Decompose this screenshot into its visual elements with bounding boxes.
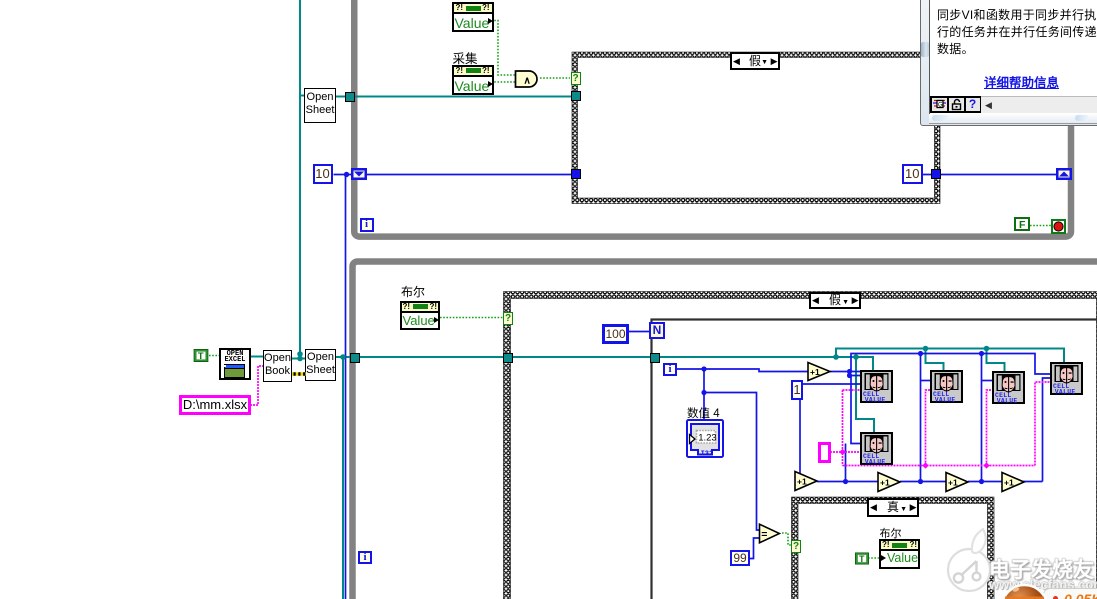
pink bottom bus xyxy=(843,465,1036,467)
case2 teal tunnel xyxy=(503,353,513,363)
blue wire 99 to equals xyxy=(750,538,762,559)
label 布尔 (while2) xyxy=(401,283,425,300)
property node Value 1 (top) xyxy=(452,2,494,32)
for loop border xyxy=(652,320,1097,599)
help toolbar buttons xyxy=(930,96,982,113)
green dotted equals to true case tunnel xyxy=(782,533,792,545)
context help window xyxy=(920,0,1097,124)
CELL VALUE express VI icons xyxy=(0,0,1,1)
property node Value 2 (采集) xyxy=(452,65,494,95)
pink vertical trunk xyxy=(842,390,844,466)
CELL VALUE 2 xyxy=(930,370,963,403)
teal main wire inside for loop xyxy=(656,356,874,358)
boolean constant T (main) xyxy=(193,349,209,362)
window left frame grip xyxy=(921,42,930,57)
teal branch to CELL2 xyxy=(926,349,944,372)
increment +1 bottom 1 xyxy=(793,470,819,492)
loop condition stop terminal xyxy=(1051,219,1066,234)
yellow striped wire Open Book to Open Sheet xyxy=(292,372,306,376)
svg-text:+1: +1 xyxy=(880,478,890,488)
watermark text 电子发烧友 xyxy=(989,554,1097,584)
blue wire 100 to N xyxy=(627,331,650,333)
svg-text:G: G xyxy=(938,103,943,109)
pink to CELL3 xyxy=(987,390,994,466)
speed text xyxy=(1064,591,1097,599)
green dotted wire Value1 to AND xyxy=(491,21,515,76)
case1 blue tunnel right xyxy=(931,169,941,179)
while loop 1 border xyxy=(354,0,1071,237)
blue vertical CELL3 xyxy=(981,354,983,482)
teal vertical wire from top to Open Sheet nodes xyxy=(299,0,301,359)
shift register left (down arrow) xyxy=(351,168,367,180)
green dotted F to stop xyxy=(1030,225,1051,227)
pink to CELL4 xyxy=(1035,382,1050,466)
true case selector label xyxy=(867,498,919,517)
window bottom frame xyxy=(929,114,1097,124)
green dotted 布尔 Value to case2 tunnel xyxy=(440,317,503,319)
teal branch to CELL row2 xyxy=(856,357,874,432)
path constant D:\mm.xlsx xyxy=(179,395,251,415)
numeric constant 10 (in case) xyxy=(902,164,923,184)
blue vertical CELL4 from bus xyxy=(1043,378,1051,482)
svg-text:+1: +1 xyxy=(1004,478,1014,488)
svg-text:+1: +1 xyxy=(797,477,807,487)
wire stub into top Open Sheet xyxy=(299,95,305,97)
while loop 2 border xyxy=(353,262,1097,599)
CELL VALUE 3 xyxy=(992,371,1025,404)
svg-text:∧: ∧ xyxy=(524,75,531,86)
teal drop into CELL VALUE 1 xyxy=(872,357,874,371)
case2 selector label xyxy=(809,292,861,309)
loop2 teal tunnel xyxy=(350,353,360,363)
blue vertical down to CELL row2 xyxy=(851,376,861,444)
svg-text:+1: +1 xyxy=(810,367,820,377)
blue +1 output to CELL1 inputs xyxy=(830,371,861,373)
case1 blue tunnel left xyxy=(571,169,581,179)
property node Value (true case, write) xyxy=(879,539,920,569)
true case selector tunnel ? xyxy=(791,540,801,553)
teal branch to CELL3 xyxy=(987,349,1005,372)
green dotted AND to case tunnel xyxy=(540,77,570,79)
svg-text:=: = xyxy=(761,528,767,540)
blue wire 10b to tunnel to shift register right xyxy=(923,174,1058,176)
blue top bus from +1 xyxy=(851,354,1050,375)
label 数值 4 xyxy=(687,405,720,421)
node: teal junction dots xyxy=(297,351,303,357)
Open Book node xyxy=(263,350,292,382)
case1 selector tunnel ? xyxy=(571,72,581,85)
CELL VALUE 1 xyxy=(860,370,893,403)
pink junction diamond xyxy=(839,449,845,455)
pink wire path const to Open Book xyxy=(250,366,264,405)
orange sphere xyxy=(1000,582,1050,599)
numeric constant 1 xyxy=(791,380,803,400)
numeric constant 100 xyxy=(602,324,629,344)
pink wire empty string to junction xyxy=(830,451,861,453)
watermark logo circle xyxy=(0,0,1097,1)
AND gate xyxy=(514,70,540,88)
for loop iteration terminal i xyxy=(663,363,677,376)
numeric indicator terminal icon xyxy=(686,419,724,458)
pink to CELL1 xyxy=(843,389,862,391)
increment +1 bottom 4 xyxy=(1000,471,1026,493)
case1 teal tunnel xyxy=(571,91,581,101)
CELL VALUE 4 xyxy=(1050,362,1083,395)
equals comparator xyxy=(758,523,781,544)
svg-text:1.23: 1.23 xyxy=(698,433,717,444)
teal wire OPEN EXCEL to Open Book xyxy=(250,356,264,358)
pink to CELL2 xyxy=(926,390,931,466)
blue wire 10 to shift register xyxy=(334,174,353,176)
loop1 teal tunnel xyxy=(345,92,355,102)
blue junction dot xyxy=(344,172,349,177)
OPEN EXCEL VI icon xyxy=(219,348,251,380)
property node Value (布尔) xyxy=(400,301,441,330)
blue wire i to +1 xyxy=(676,369,809,372)
teal wire Open Sheet 2 to for loop xyxy=(336,356,656,358)
teal junction dot B xyxy=(853,354,859,360)
label 布尔 (true case) xyxy=(880,525,902,541)
blue wire 1 const down to +1 row xyxy=(799,400,801,478)
increment +1 bottom 2 xyxy=(876,471,902,493)
blue wire to numeric indicator xyxy=(703,393,705,421)
case structure true border (inner) xyxy=(792,497,995,599)
green dotted T to OPEN EXCEL xyxy=(209,355,220,357)
boolean constant F xyxy=(1014,217,1030,231)
teal top bus xyxy=(836,349,1064,364)
teal junction dot A xyxy=(833,354,839,360)
blue bottom bus xyxy=(817,481,878,483)
teal wire Open Book to Open Sheet 2 xyxy=(292,358,306,360)
watermark text www.elecfans.com xyxy=(989,577,1097,592)
blue vertical CELL2 xyxy=(920,354,922,482)
svg-text:+1: +1 xyxy=(948,478,958,488)
teal vertical to bottom left xyxy=(342,358,344,599)
help text xyxy=(937,7,1097,58)
svg-text:I32: I32 xyxy=(701,451,714,458)
orange ball overlay xyxy=(0,0,1097,1)
numeric constant 10 (left) xyxy=(313,164,333,184)
blue vertical from junction to bottom xyxy=(345,175,347,599)
increment +1 (top) xyxy=(806,361,832,382)
blue wire branch down to equals xyxy=(704,369,762,530)
Open Sheet node (bottom) xyxy=(305,349,336,381)
case structure 1 (false case) border xyxy=(572,52,940,204)
blue wire 1 const to CELL1 xyxy=(803,383,861,385)
svg-text:F: F xyxy=(1019,219,1026,231)
blue vertical row2 connector xyxy=(845,444,847,482)
boolean constant T (true case) xyxy=(855,552,869,565)
for loop teal tunnel xyxy=(650,353,660,363)
help link 详细帮助信息 xyxy=(984,72,1059,91)
numeric constant 99 xyxy=(730,550,750,566)
case1 selector label xyxy=(730,52,780,70)
teal wire Open Sheet to case 1 xyxy=(336,96,576,98)
label 采集 xyxy=(453,48,478,67)
Open Sheet node (top) xyxy=(304,88,336,123)
loop2 iteration terminal i xyxy=(358,551,372,564)
shift register right (up arrow) xyxy=(1056,168,1072,180)
green dotted T to Value (true case) xyxy=(868,557,880,559)
red dot xyxy=(1053,596,1058,599)
case2 selector tunnel ? xyxy=(503,312,513,325)
CELL VALUE row2 xyxy=(860,432,893,465)
increment +1 bottom 3 xyxy=(944,471,970,493)
for loop N terminal xyxy=(649,322,665,339)
case structure 2 (false case) border xyxy=(504,292,1097,599)
help scrollbar xyxy=(981,96,1097,113)
green dotted wire Value2 to AND xyxy=(491,81,515,83)
loop1 iteration terminal i xyxy=(360,218,374,232)
empty string constant xyxy=(818,442,831,463)
blue wire shift register to case1 xyxy=(367,174,576,176)
